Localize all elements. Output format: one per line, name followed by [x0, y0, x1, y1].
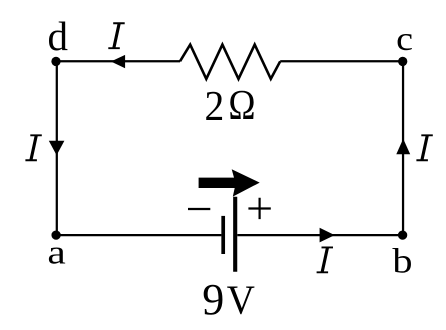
wire bottom segment battery to b [237, 234, 403, 236]
node a [51, 230, 60, 239]
current label I top [108, 22, 124, 49]
node d [51, 57, 60, 66]
current label I bottom [317, 247, 333, 274]
node b [398, 230, 407, 239]
svg-text:d: d [48, 13, 69, 59]
current label I right [416, 134, 432, 161]
wire top segment d to resistor [56, 60, 180, 62]
battery negative plate (short) [221, 216, 225, 254]
wire top segment resistor to c [280, 60, 403, 62]
battery positive plate (long) [233, 197, 237, 272]
svg-text:Ω: Ω [228, 82, 255, 129]
wire right segment b to c [402, 61, 404, 235]
svg-text:c: c [396, 20, 413, 58]
wire bottom segment a to battery [56, 234, 221, 236]
battery polarity minus label [188, 208, 210, 210]
current arrow on right wire pointing up [396, 139, 410, 155]
current arrow on bottom wire pointing right [320, 228, 335, 243]
current label I left [25, 134, 41, 161]
svg-text:a: a [47, 234, 66, 272]
svg-text:b: b [392, 242, 412, 281]
current arrow on left wire pointing down [49, 141, 65, 156]
svg-text:V: V [227, 276, 255, 322]
resistor R 2 ohm zigzag [180, 45, 280, 79]
svg-text:2: 2 [205, 83, 225, 129]
node c [398, 57, 407, 66]
wire left segment d to a [56, 61, 58, 235]
current arrow on top wire pointing left [111, 55, 125, 68]
EMF direction thick arrow above battery [199, 169, 260, 196]
battery polarity plus label [248, 198, 270, 219]
svg-text:9: 9 [202, 275, 224, 324]
